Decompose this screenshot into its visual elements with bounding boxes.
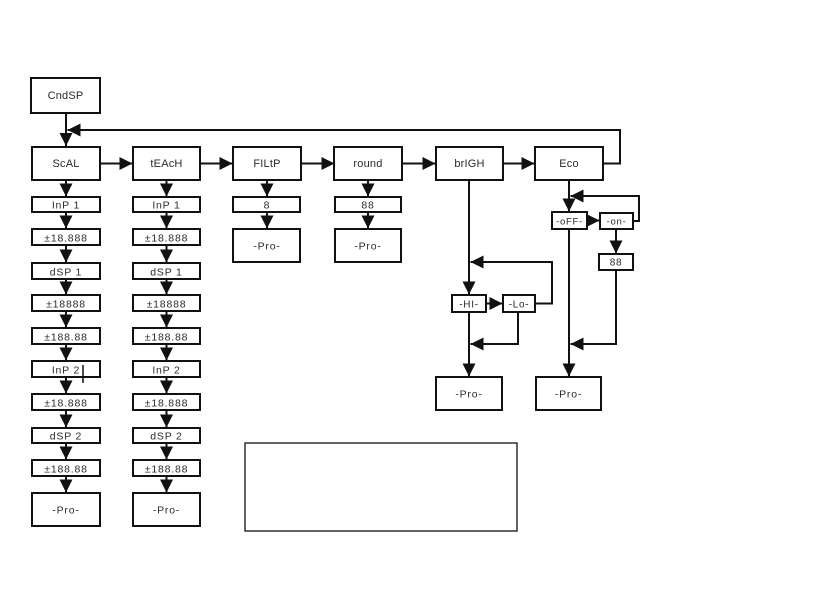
box +-188.88 second (ScAL col) [32, 460, 100, 476]
box InP 1 (ScAL col) [32, 197, 100, 212]
wire brIGH to Eco [503, 163, 535, 165]
svg-text:±18.888: ±18.888 [145, 398, 188, 410]
box +-18.888 second (ScAL col) [32, 394, 100, 410]
wire t188.88 to tInP2 [166, 344, 168, 361]
svg-text:-Pro-: -Pro- [455, 389, 482, 401]
box dSP 1 (tEAcH col) [133, 263, 200, 279]
svg-text:dSP 2: dSP 2 [150, 431, 182, 443]
wire t18.888b to tdSP2 [166, 410, 168, 428]
svg-text:±18.888: ±18.888 [44, 398, 87, 410]
svg-text:dSP 2: dSP 2 [50, 431, 82, 443]
svg-text:±188.88: ±188.88 [44, 332, 87, 344]
svg-text:ScAL: ScAL [52, 158, 79, 170]
wire 88e down back to oFF line [571, 270, 617, 344]
wire 188.88 to InP2 [65, 344, 67, 361]
box InP 2 (ScAL col) [32, 361, 100, 377]
box -HI- [452, 295, 486, 312]
wire tdSP1 to t18888 [166, 279, 168, 295]
box dSP 2 (ScAL col) [32, 428, 100, 443]
svg-text:88: 88 [361, 200, 374, 212]
box CndSP [31, 78, 100, 113]
box InP 1 (tEAcH col) [133, 197, 200, 212]
wire 88 to Pro4 [367, 212, 369, 229]
svg-text:InP 1: InP 1 [152, 200, 180, 212]
svg-text:-Pro-: -Pro- [354, 241, 381, 253]
box 88 (round col) [335, 197, 401, 212]
svg-text:±18888: ±18888 [147, 299, 187, 311]
box InP 2 (tEAcH col) [133, 361, 200, 377]
wire dSP2 to 188.88b [65, 443, 67, 460]
svg-text:88: 88 [610, 258, 623, 269]
box +-18.888 (tEAcH col) [133, 229, 200, 245]
wire round to brIGH [401, 163, 436, 165]
box round [334, 147, 402, 180]
wire CndSP to ScAL [65, 113, 67, 146]
wire ScAL to InP1 [65, 180, 67, 197]
box -Pro- (round col) [335, 229, 401, 262]
wire InP1b to t18.888 [166, 212, 168, 229]
svg-text:CndSP: CndSP [48, 90, 84, 102]
svg-text:±188.88: ±188.88 [44, 464, 87, 476]
svg-text:tEAcH: tEAcH [150, 158, 182, 170]
box tEAcH [133, 147, 200, 180]
box -Pro- (FILtP col) [233, 229, 300, 262]
svg-text:InP 1: InP 1 [52, 200, 80, 212]
box brIGH [436, 147, 503, 180]
wire on to 88e [615, 229, 617, 254]
box +-18.888 second (tEAcH col) [133, 394, 200, 410]
wire t18.888 to tdSP1 [166, 245, 168, 263]
box +-18888 (ScAL col) [32, 295, 100, 311]
wire InP2 to 18.888b [65, 377, 67, 394]
svg-text:8: 8 [264, 200, 271, 212]
box -Pro- (brIGH col) [436, 377, 502, 410]
svg-text:-oFF-: -oFF- [556, 217, 583, 228]
box +-188.88 (tEAcH col) [133, 328, 200, 344]
box Eco [535, 147, 603, 180]
wire tInP2 to t18.888b [166, 377, 168, 394]
wire 18.888b to dSP2 [65, 410, 67, 428]
wire oFF down to Pro6 [568, 229, 570, 377]
svg-text:±18.888: ±18.888 [44, 233, 87, 245]
wire feedback Eco to ScAL entry [68, 130, 621, 164]
box +-188.88 (ScAL col) [32, 328, 100, 344]
box +-18.888 (ScAL col) [32, 229, 100, 245]
stray tick mark right of InP 2 [82, 365, 84, 383]
wire 18888 to 188.88 [65, 311, 67, 328]
svg-text:±18888: ±18888 [46, 299, 86, 311]
wire oFF to on [587, 220, 600, 222]
wire round to 88 [367, 180, 369, 197]
box +-18888 (tEAcH col) [133, 295, 200, 311]
wire 8 to Pro3 [266, 212, 268, 229]
wire 188.88b to Pro1 [65, 476, 67, 493]
svg-text:Eco: Eco [559, 158, 579, 170]
svg-text:dSP 1: dSP 1 [50, 267, 82, 279]
wire on loop back to oFF entry [571, 196, 640, 221]
wire Lo loop back to HI entry [471, 262, 553, 304]
wire brIGH to HI [468, 180, 470, 295]
wire t188.88b to Pro2 [166, 476, 168, 493]
wire Eco to oFF [568, 180, 570, 212]
box FILtP [233, 147, 301, 180]
svg-text:-Pro-: -Pro- [555, 389, 582, 401]
svg-text:brIGH: brIGH [454, 158, 484, 170]
wire HI down to Pro5 [468, 312, 470, 377]
wire FILtP to 8 [266, 180, 268, 197]
svg-text:-Lo-: -Lo- [509, 300, 530, 311]
box +-188.88 second (tEAcH col) [133, 460, 200, 476]
svg-text:dSP 1: dSP 1 [150, 267, 182, 279]
box empty legend rectangle [245, 443, 517, 531]
wire tEAcH to InP1b [166, 180, 168, 197]
box -Pro- (ScAL col) [32, 493, 100, 526]
wire Lo down back to brIGH line [471, 312, 519, 344]
box ScAL [32, 147, 100, 180]
box -oFF- [552, 212, 587, 229]
wire InP1 to 18.888 [65, 212, 67, 229]
box dSP 1 (ScAL col) [32, 263, 100, 279]
wire tEAcH to FILtP [200, 163, 233, 165]
box 88 (Eco col) [599, 254, 633, 270]
svg-text:±188.88: ±188.88 [145, 464, 188, 476]
svg-text:-HI-: -HI- [459, 300, 478, 311]
svg-text:InP 2: InP 2 [152, 365, 180, 377]
wire 18.888 to dSP1 [65, 245, 67, 263]
box -on- [600, 213, 633, 229]
box -Lo- [503, 295, 535, 312]
box 8 (FILtP col) [233, 197, 300, 212]
svg-text:±188.88: ±188.88 [145, 332, 188, 344]
wire dSP1 to 18888 [65, 279, 67, 295]
svg-text:InP 2: InP 2 [52, 365, 80, 377]
box dSP 2 (tEAcH col) [133, 428, 200, 443]
svg-text:±18.888: ±18.888 [145, 233, 188, 245]
wire HI to Lo [486, 303, 503, 305]
svg-text:round: round [353, 158, 382, 170]
wire ScAL to tEAcH [100, 163, 133, 165]
svg-text:-Pro-: -Pro- [52, 505, 79, 517]
wire tdSP2 to t188.88b [166, 443, 168, 460]
svg-text:FILtP: FILtP [253, 158, 280, 170]
svg-text:-on-: -on- [607, 217, 627, 228]
svg-text:-Pro-: -Pro- [153, 505, 180, 517]
wire t18888 to t188.88 [166, 311, 168, 328]
box -Pro- (Eco col) [536, 377, 601, 410]
box -Pro- (tEAcH col) [133, 493, 200, 526]
svg-text:-Pro-: -Pro- [253, 241, 280, 253]
wire FILtP to round [301, 163, 335, 165]
